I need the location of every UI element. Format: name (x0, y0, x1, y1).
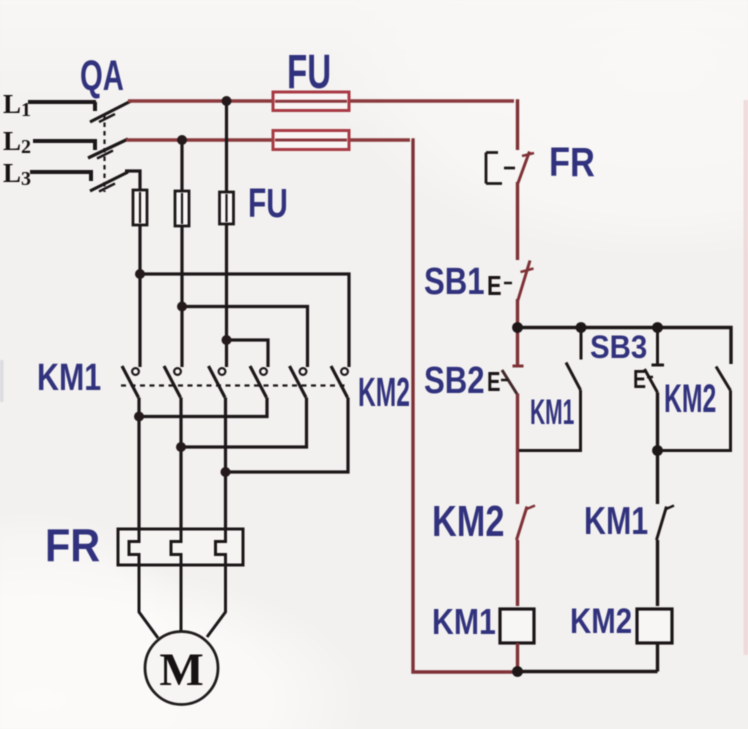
wire KM2 contact4 output crossover to line A (139, 398, 267, 417)
switch QA linkage dashed (103, 114, 105, 192)
wire SB3 branch down (656, 393, 659, 607)
wire SB2 down through interlock to coil (516, 394, 519, 607)
wire KM1 outputs down to FR heaters (139, 398, 226, 530)
switch QA pole 2 blade (88, 139, 128, 159)
wire L1 phase bus to control (maroon) (128, 99, 514, 102)
node junction dot L1/C (222, 96, 232, 106)
node dot feed B (177, 302, 187, 312)
switch QA pole 3 blade (90, 172, 128, 192)
wire motor lead C (207, 565, 226, 637)
fuse FU5 (phase C) (220, 192, 234, 224)
relay FR heater element 1 (129, 529, 139, 565)
wire KM2 contact5 output crossover to line B (181, 398, 307, 448)
wire L2 input (33, 141, 97, 150)
svg-text:E: E (633, 364, 646, 393)
fuse FU2 (top, phase L2) (273, 131, 349, 150)
button SB3 NO start reverse (645, 328, 665, 393)
node dot SB3/KM2aux junction (652, 445, 663, 456)
wire phase C vertical (x=226.5) (225, 101, 228, 367)
svg-text:KM1: KM1 (530, 394, 574, 433)
node dot feed C (222, 335, 232, 345)
relay FR trip element symbol (486, 153, 515, 184)
wire L1 input (28, 102, 96, 111)
coil KM2 (637, 609, 672, 643)
wire L3 input (30, 172, 93, 181)
contact KM1 NC interlock (648, 504, 674, 540)
label E actuator SB2 (487, 367, 508, 398)
wire KM1 coil to bottom (516, 643, 519, 672)
relay FR heater element 3 (216, 529, 226, 565)
svg-text:KM2: KM2 (358, 370, 410, 416)
fuse FU4 (phase B) (175, 191, 189, 226)
linkage dashed KM1-KM2 contacts (121, 384, 345, 386)
svg-text:SB3: SB3 (590, 329, 647, 365)
button SB2 NO start forward (502, 366, 524, 394)
wire L2 phase bus to control left return (maroon) (126, 138, 410, 141)
contactor KM1 main contact 1 (122, 366, 139, 398)
motor M (145, 632, 218, 705)
switch QA pole 1 blade (90, 101, 131, 122)
contact KM2 NC interlock (508, 504, 535, 540)
svg-text:E: E (487, 367, 500, 398)
svg-text:KM2: KM2 (570, 602, 632, 641)
relay FR heater element 2 (171, 529, 181, 565)
svg-text:M: M (159, 644, 203, 696)
svg-text:KM1: KM1 (432, 603, 496, 643)
wire feed A to KM2 contact 6 (140, 274, 349, 367)
svg-text:KM2: KM2 (432, 497, 504, 546)
fuse FU3 (phase A) (133, 190, 147, 225)
relay FR heater box (118, 529, 243, 565)
fuse FU1 (top, phase L1) (273, 92, 349, 111)
svg-text:FR: FR (549, 140, 595, 185)
contactor KM2 main contact 6 (331, 366, 348, 398)
svg-text:FR: FR (45, 520, 100, 572)
svg-text:KM1: KM1 (584, 499, 648, 542)
contact KM1 aux NO (hold-in) (519, 328, 581, 451)
svg-text:E: E (487, 270, 502, 301)
node dot crossover A (134, 412, 144, 422)
coil KM1 (500, 609, 534, 643)
wire FR to SB1 (516, 182, 519, 260)
wire feed B to KM2 contact 5 (182, 307, 308, 368)
svg-text:FU: FU (248, 180, 288, 226)
contactor KM1 main contact 3 (209, 366, 226, 398)
wire KM2 coil to bottom return (518, 643, 658, 672)
svg-text:KM2: KM2 (664, 377, 716, 421)
wire L3 bend down (125, 171, 140, 190)
label E actuator SB1 (487, 270, 512, 301)
svg-text:FU: FU (287, 45, 331, 99)
svg-text:QA: QA (80, 51, 124, 99)
node dot feed A (135, 269, 145, 279)
node dot KM1 aux top (576, 322, 587, 333)
svg-text:SB2: SB2 (424, 360, 485, 402)
wire motor lead B (180, 565, 183, 632)
node dot bottom (512, 666, 523, 677)
wire SB1 to bus node (516, 299, 519, 365)
wire phase A vertical (x=140) (138, 190, 141, 367)
contact FR NC (control circuit) (518, 152, 534, 184)
svg-text:SB1: SB1 (424, 261, 485, 303)
contactor KM2 main contact 4 (250, 366, 267, 398)
node dot crossover C (221, 467, 231, 477)
wire feed C to KM2 contact 4 (227, 340, 269, 367)
button SB1 NC stop (518, 261, 534, 301)
node dot SB3 top (652, 322, 663, 333)
contact KM2 aux NO (hold-in) (658, 367, 731, 451)
wire motor lead A (139, 565, 158, 638)
label E actuator SB3 (633, 364, 653, 393)
node junction dot L2/B (177, 135, 187, 145)
contactor KM1 main contact 2 (164, 366, 181, 398)
wire phase B vertical (x=182) (180, 140, 183, 367)
node dot crossover B (176, 442, 186, 452)
wire control bus horizontal (518, 328, 732, 365)
contactor KM2 main contact 5 (290, 366, 307, 398)
svg-text:KM1: KM1 (37, 357, 101, 399)
wire KM2 contact6 output crossover to line C (226, 398, 349, 473)
node dot control bus left (512, 322, 523, 333)
